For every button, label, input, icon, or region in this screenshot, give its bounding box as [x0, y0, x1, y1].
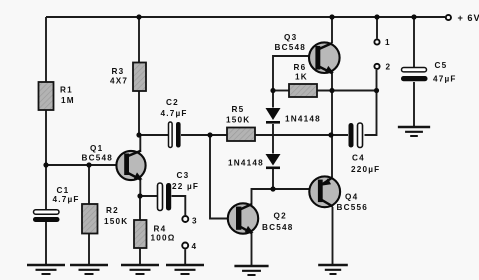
svg-text:1: 1	[385, 38, 391, 47]
svg-text:1M: 1M	[61, 96, 75, 105]
svg-text:220µF: 220µF	[351, 165, 380, 174]
svg-text:R2: R2	[106, 206, 119, 215]
svg-text:4.7µF: 4.7µF	[53, 195, 80, 204]
svg-text:3: 3	[192, 217, 198, 226]
svg-text:2: 2	[386, 63, 392, 72]
svg-text:4.7µF: 4.7µF	[161, 109, 188, 118]
svg-text:BC556: BC556	[337, 203, 369, 212]
svg-text:C4: C4	[352, 154, 365, 163]
svg-text:1K: 1K	[295, 73, 308, 82]
svg-text:BC548: BC548	[275, 43, 307, 52]
svg-text:Q1: Q1	[90, 144, 103, 153]
svg-text:1N4148: 1N4148	[285, 115, 321, 124]
svg-text:1N4148: 1N4148	[228, 158, 264, 167]
svg-text:+ 6V: + 6V	[458, 13, 479, 23]
svg-text:150K: 150K	[104, 217, 128, 226]
svg-text:Q4: Q4	[345, 193, 358, 202]
svg-text:R5: R5	[232, 105, 245, 114]
svg-text:Q3: Q3	[284, 33, 297, 42]
svg-text:BC548: BC548	[262, 223, 294, 232]
svg-text:C5: C5	[435, 61, 448, 70]
svg-text:C1: C1	[57, 186, 70, 195]
svg-text:150K: 150K	[226, 116, 250, 125]
svg-text:C2: C2	[166, 98, 179, 107]
svg-text:R6: R6	[294, 63, 307, 72]
svg-text:BC548: BC548	[82, 154, 114, 163]
svg-text:47µF: 47µF	[433, 74, 457, 83]
svg-text:4X7: 4X7	[110, 76, 128, 85]
svg-text:R4: R4	[154, 225, 167, 234]
svg-text:R1: R1	[60, 86, 73, 95]
svg-text:4: 4	[192, 242, 198, 251]
svg-text:22 µF: 22 µF	[172, 182, 199, 191]
svg-text:Q2: Q2	[274, 212, 287, 221]
svg-text:C3: C3	[177, 171, 190, 180]
svg-text:100Ω: 100Ω	[151, 234, 176, 243]
svg-text:R3: R3	[112, 67, 125, 76]
